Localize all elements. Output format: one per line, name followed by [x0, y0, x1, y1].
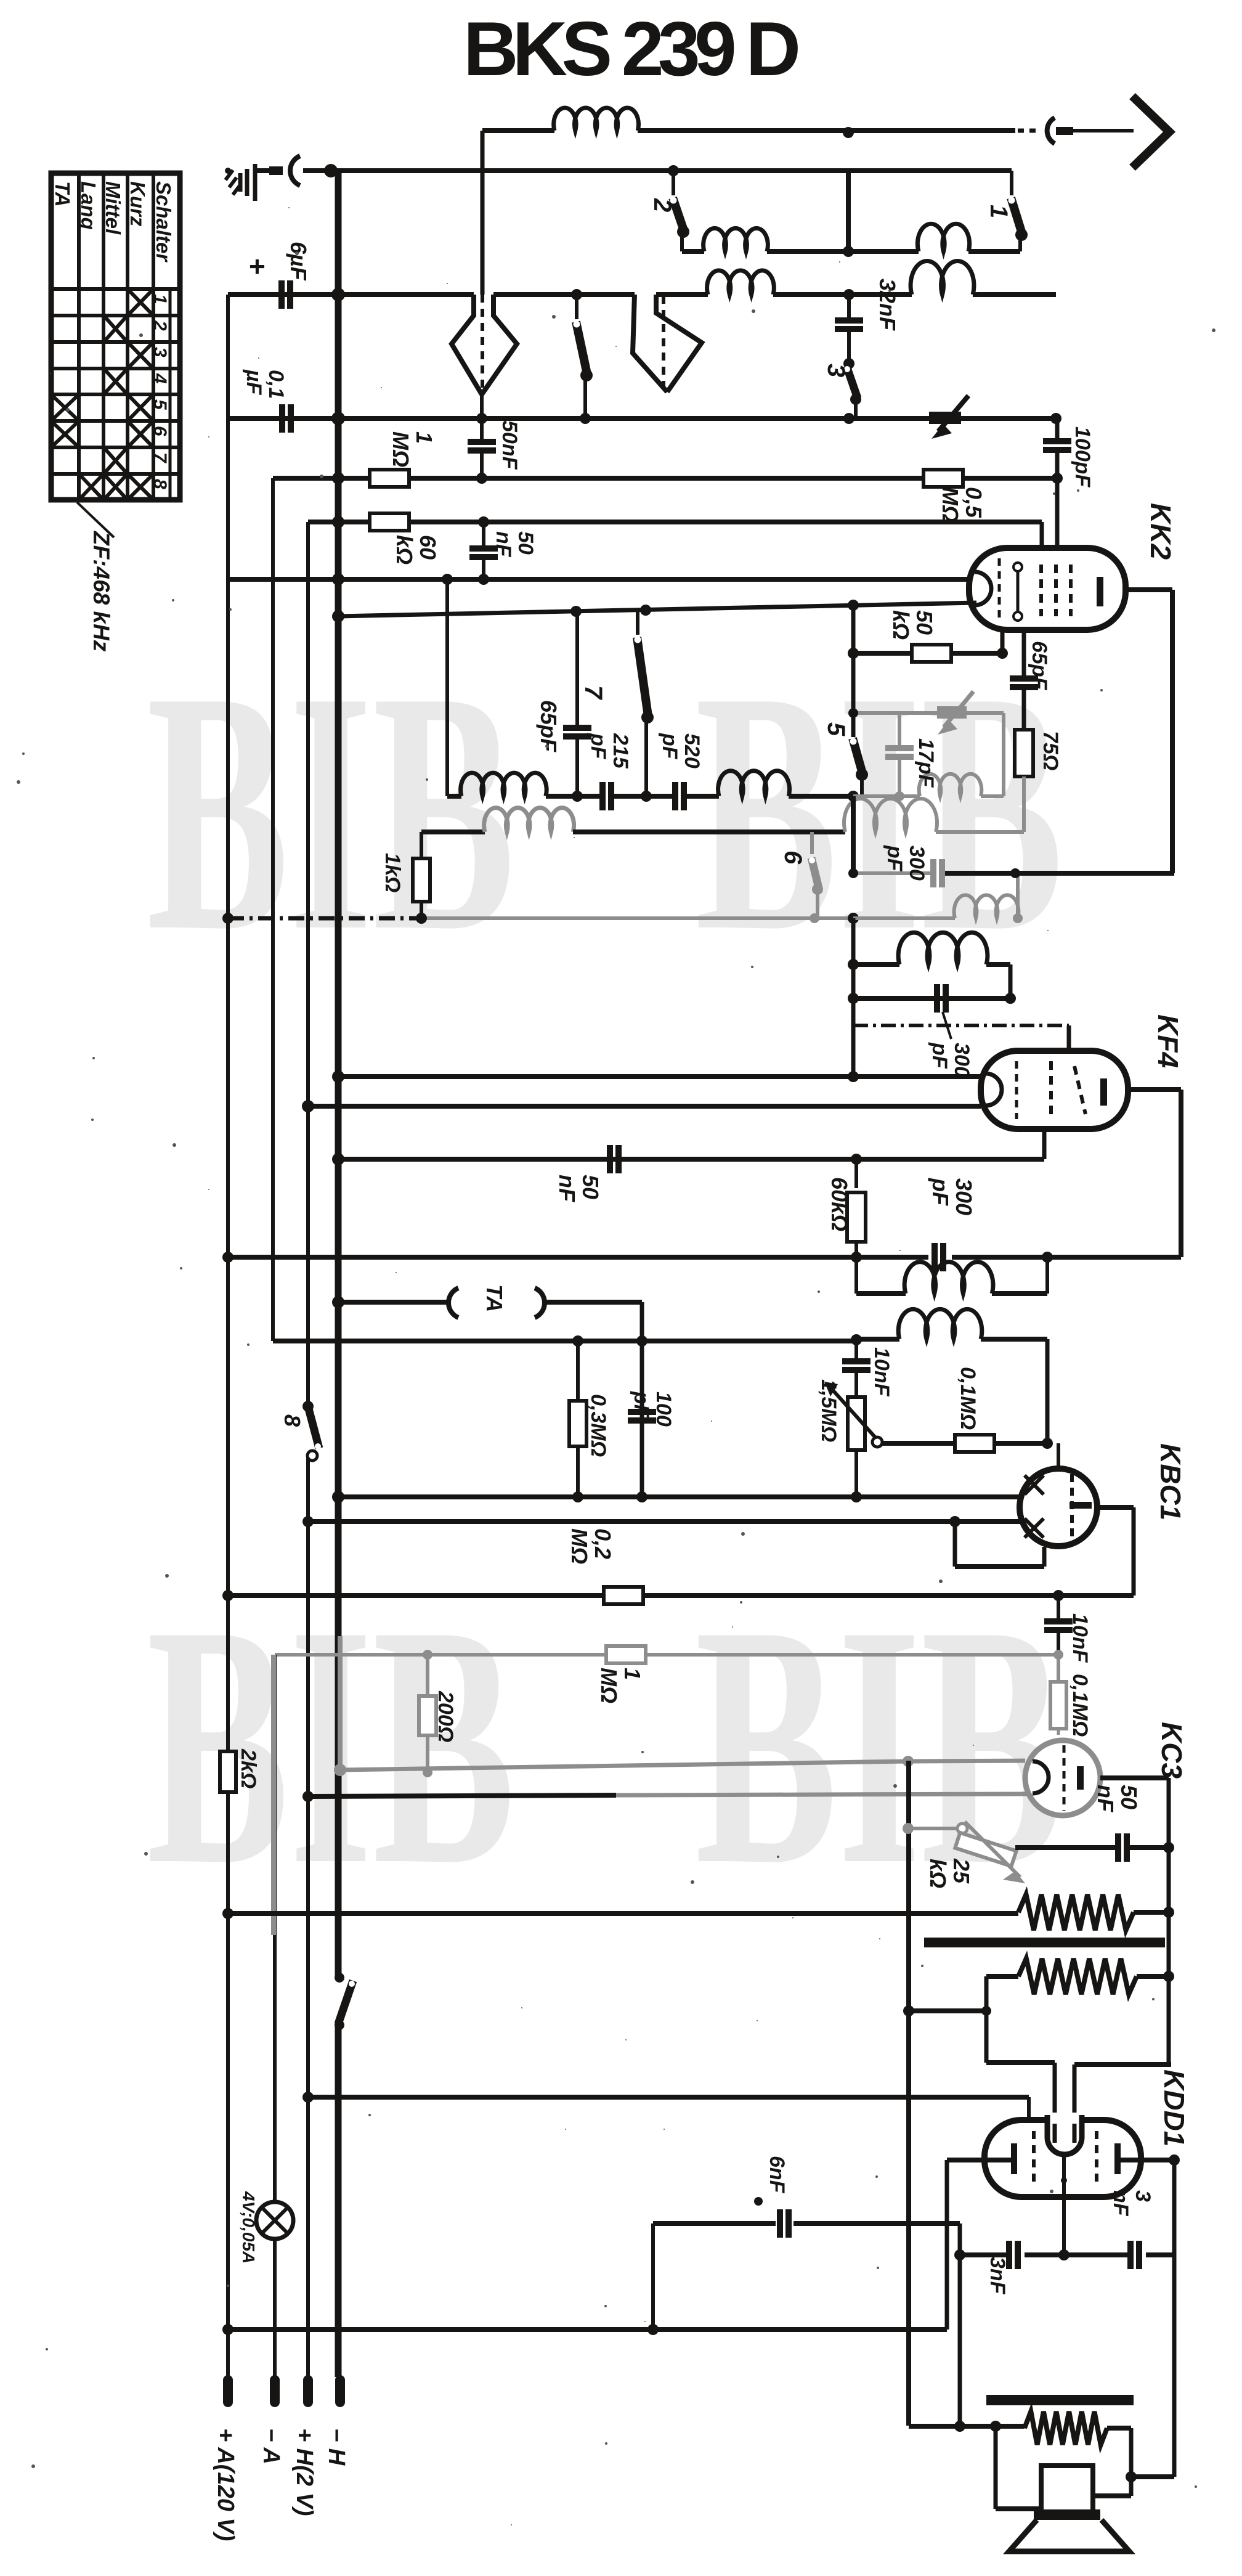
wire H 2429: [338, 1494, 1020, 1499]
wire H 2589: [228, 1593, 1134, 1598]
capacitor 50nF: [554, 1145, 622, 1202]
wire: [480, 394, 484, 418]
junction gray: [423, 1650, 432, 1660]
svg-text:0,3MΩ: 0,3MΩ: [586, 1394, 610, 1457]
wire H 3263: [909, 2008, 986, 2013]
wire: [583, 374, 587, 418]
svg-text:BIB: BIB: [147, 1554, 515, 1936]
switch 4: [574, 295, 593, 381]
svg-text:2: 2: [150, 320, 170, 331]
wire H 2912 to KC3 grid: [308, 1794, 1027, 1796]
wire KF4 line2: [308, 1104, 981, 1109]
resistor 0,3MOhm: [569, 1341, 610, 1497]
junction: [478, 516, 489, 528]
svg-text:7: 7: [580, 685, 607, 700]
resistor 1MOhm 2: [596, 1646, 646, 1703]
tube KK2: [969, 548, 1126, 630]
svg-text:17pF: 17pF: [914, 738, 938, 788]
capacitor gray: [885, 713, 914, 801]
svg-text:6nF: 6nF: [765, 2156, 789, 2194]
junction: [332, 1070, 344, 1083]
resistor 200Ohm: [419, 1655, 457, 1772]
wire H 3105: [228, 1911, 1018, 1916]
wire: [853, 996, 1010, 1001]
capacitor 3nF a: [986, 2241, 1021, 2295]
tube KC3: [1025, 1740, 1100, 1816]
potentiometer 1,5MOhm: [817, 1379, 877, 1497]
wire: [846, 171, 851, 251]
junction: [848, 913, 859, 924]
wire H6: [308, 522, 1042, 550]
svg-text:0,1µF: 0,1µF: [242, 369, 288, 399]
bus V4 (+H chassis bus): [335, 171, 342, 2377]
svg-text:8: 8: [280, 1414, 305, 1427]
junction: [222, 1252, 233, 1263]
svg-text:KF4: KF4: [1152, 1014, 1184, 1068]
junction: [848, 959, 859, 970]
wire gray osc top: [853, 711, 1004, 715]
svg-text:3: 3: [150, 347, 170, 357]
wire osc feed: [848, 868, 1174, 878]
svg-text:KBC1: KBC1: [1155, 1443, 1187, 1520]
resistor 0,1MOhm 2: [1050, 1655, 1092, 1742]
capacitor 215pF: [586, 733, 632, 810]
terminal -A: [258, 2380, 284, 2464]
junction: [848, 1071, 859, 1082]
wire: [1093, 2428, 1131, 2496]
rheostat 25kOhm: [925, 1822, 1025, 1888]
capacitor 65pF: [1010, 641, 1051, 691]
capacitor 65pF left: [536, 611, 591, 796]
wire TA left: [338, 1300, 447, 1305]
junction: [997, 648, 1008, 659]
wire gray coil: [853, 895, 1023, 923]
svg-text:0,1MΩ: 0,1MΩ: [956, 1367, 980, 1430]
junction: [954, 2249, 965, 2260]
resistor 50kOhm: [888, 610, 951, 662]
svg-text:3nF: 3nF: [986, 2257, 1009, 2295]
junction: [647, 2324, 659, 2335]
capacitor 520pF: [658, 733, 704, 810]
label KF4: [1152, 1014, 1184, 1068]
svg-text:50nF: 50nF: [1093, 1785, 1142, 1812]
svg-text:BIB: BIB: [147, 620, 515, 1002]
svg-text:50nF: 50nF: [492, 531, 537, 558]
title BKS 239 D: [463, 7, 802, 92]
svg-text:− A: − A: [258, 2428, 284, 2464]
capacitor 50nF antenna: [468, 418, 521, 484]
switch 1: [1009, 171, 1028, 241]
capacitor 10nF: [842, 1339, 893, 1397]
capacitor 6uF: [249, 242, 311, 309]
wire H 2176: [273, 1339, 856, 1343]
junction: [843, 127, 854, 138]
wire: [996, 2426, 1041, 2509]
svg-text:KC3: KC3: [1156, 1722, 1188, 1779]
svg-text:+ H(2 V): + H(2 V): [291, 2428, 317, 2516]
label 2: [649, 198, 676, 212]
tube KDD1: [984, 2113, 1141, 2197]
junction: [851, 1491, 862, 1502]
wire KBC1 top pin: [1057, 1443, 1060, 1469]
junction: [571, 289, 582, 300]
wire: [882, 1441, 954, 1446]
svg-text:KK2: KK2: [1145, 503, 1177, 560]
resistor 1MOhm: [370, 431, 437, 487]
svg-text:3: 3: [822, 364, 850, 377]
wire right anode: [1121, 2160, 1174, 2477]
junction: [949, 1516, 960, 1527]
svg-text:2: 2: [649, 198, 676, 212]
wire IF coil loop: [856, 1257, 1047, 1294]
junction: [636, 1335, 647, 1347]
junction: [332, 1153, 344, 1165]
svg-text:5: 5: [822, 722, 850, 736]
switch 6: [809, 832, 823, 918]
bus V3 (+H2V): [306, 522, 310, 2377]
junction: [843, 413, 854, 424]
label 6: [779, 850, 806, 865]
label KBC1: [1155, 1443, 1187, 1520]
winding zigzag 2: [1018, 1958, 1137, 1994]
capacitor 300pF: [934, 984, 949, 1013]
wire: [851, 796, 856, 873]
switch 5: [850, 738, 869, 797]
resistor 60kOhm: [370, 513, 440, 565]
wire: [1009, 964, 1013, 998]
junction: [848, 791, 859, 802]
wire: [1130, 1842, 1174, 1853]
svg-text:+: +: [249, 250, 266, 282]
junction: [222, 1590, 233, 1601]
svg-text:TA: TA: [482, 1284, 507, 1312]
svg-text:− H: − H: [323, 2428, 349, 2466]
switch 3: [844, 366, 861, 418]
svg-text:0,2MΩ: 0,2MΩ: [567, 1528, 615, 1564]
junction: [1052, 473, 1063, 484]
svg-text:5: 5: [150, 399, 170, 410]
wire row A gray: [853, 713, 1004, 796]
junction: [848, 993, 859, 1004]
wire: [1027, 2097, 1031, 2122]
bus V1 (+A): [226, 295, 230, 2377]
junction: [851, 1154, 862, 1165]
resistor 2kOhm: [220, 1748, 260, 1792]
resistor 60kOhm 2: [827, 1159, 866, 1257]
junction: [332, 1296, 344, 1308]
resistor 0,1MOhm: [955, 1367, 994, 1452]
wire: [986, 1976, 1055, 2143]
capacitor 50nF 4: [1093, 1785, 1142, 1862]
capacitor 100pF: [1043, 418, 1094, 548]
capacitor 32nF: [835, 279, 900, 361]
junction: [476, 413, 487, 424]
junction: [640, 605, 651, 616]
svg-text:4: 4: [150, 373, 170, 384]
label KC3: [1156, 1722, 1188, 1779]
wire: [1022, 630, 1026, 675]
wire gray H 2860: [340, 1761, 1025, 1770]
junction: [332, 516, 344, 528]
svg-text:60kΩ: 60kΩ: [827, 1177, 852, 1231]
switch table Schalter/Kurz/Mittel/Lang/TA: [51, 173, 180, 500]
svg-text:ZF:468 kHz: ZF:468 kHz: [89, 531, 114, 652]
wire TA right: [545, 1302, 642, 1497]
junction: [843, 246, 854, 257]
wire H 2469: [308, 1519, 1020, 1524]
switch 2: [670, 171, 690, 238]
svg-text:6: 6: [779, 850, 806, 865]
junction: [302, 2092, 314, 2103]
antenna jack: [256, 156, 300, 185]
svg-text:TA: TA: [51, 181, 74, 207]
svg-text:0,1MΩ: 0,1MΩ: [1068, 1674, 1092, 1737]
wire KF4 anode: [1128, 1090, 1181, 1257]
wire: [653, 2223, 960, 2329]
wire: [1015, 1845, 1115, 1850]
capacitor 0,1uF: [242, 369, 294, 433]
switch 7: [635, 610, 654, 723]
wire KC3 anode: [1100, 1778, 1169, 2064]
wire H 3780: [228, 2327, 947, 2332]
junction: [332, 1491, 344, 1503]
svg-text:32nF: 32nF: [875, 279, 900, 331]
capacitor 10nF 2: [1044, 1596, 1092, 1663]
wire gray V2 overlay: [271, 1655, 276, 1935]
wire: [853, 651, 1002, 656]
svg-text:200Ω: 200Ω: [434, 1690, 457, 1742]
core bar: [924, 1938, 1165, 1947]
wire V 1475: [906, 1761, 911, 2426]
wire coil row y408: [682, 224, 1020, 251]
junction: [848, 648, 859, 659]
junction: [302, 1516, 314, 1527]
svg-text:Kurz: Kurz: [126, 181, 149, 227]
junction gray: [1053, 1650, 1063, 1660]
wire: [851, 918, 856, 1077]
svg-text:1: 1: [150, 294, 170, 304]
junction: [848, 708, 858, 718]
core bar 2: [986, 2395, 1134, 2405]
tube KBC1: [1020, 1469, 1097, 1546]
wire: [644, 716, 648, 796]
junction: [1042, 1438, 1053, 1449]
junction: [848, 600, 859, 611]
junction: [1053, 1590, 1064, 1601]
junction: [332, 573, 344, 585]
wire H8: [338, 603, 976, 737]
junction: [331, 288, 345, 301]
junction: [572, 791, 583, 802]
junction: [843, 358, 854, 369]
junction: [572, 1491, 583, 1502]
junction: [324, 164, 338, 177]
bus V2a grid return: [271, 478, 275, 1341]
wire gray bus overlay: [338, 1636, 343, 1770]
wire: [680, 230, 684, 251]
wire KK2 cathode pin: [1000, 629, 1005, 653]
junction: [302, 1100, 314, 1112]
svg-text:1kΩ: 1kΩ: [381, 853, 404, 892]
svg-text:BIB: BIB: [695, 620, 1063, 1002]
wire row B: [421, 799, 1024, 832]
junction: [668, 165, 679, 176]
wire dashdot: [228, 916, 421, 921]
junction: [851, 1252, 862, 1263]
junction: [1042, 1252, 1053, 1263]
junction: [332, 472, 344, 484]
svg-text:1: 1: [985, 205, 1012, 218]
speaker: [1009, 2466, 1129, 2551]
switch 8: [302, 1401, 321, 1461]
wire KF4 grid: [338, 1074, 981, 1079]
TA jack: [448, 1284, 545, 1318]
wire row A: [447, 579, 853, 796]
switch mains: [335, 1973, 355, 2030]
wire KBC1 anode: [1097, 1507, 1134, 1596]
wire anode rail: [1126, 590, 1172, 873]
junction: [843, 289, 854, 300]
label 8: [280, 1414, 305, 1427]
wire: [1067, 1025, 1071, 1052]
wire coil row 2173: [856, 1309, 1047, 1443]
svg-text:50nF: 50nF: [554, 1175, 603, 1202]
plug right: [633, 295, 702, 392]
tube KF4: [981, 1051, 1128, 1129]
junction: [222, 1908, 233, 1919]
svg-text:BKS 239 D: BKS 239 D: [463, 7, 802, 92]
junction gray: [334, 1764, 346, 1776]
junction: [580, 413, 591, 424]
capacitor 6nF: [754, 2156, 792, 2238]
svg-text:0,5MΩ: 0,5MΩ: [938, 487, 986, 523]
wire left anode: [947, 2160, 1011, 2329]
label 7: [580, 685, 607, 700]
ground: [225, 164, 255, 201]
label 3: [822, 364, 850, 377]
junction: [990, 2421, 1001, 2432]
trimmer 17pF: [914, 691, 973, 788]
svg-text:10nF: 10nF: [870, 1347, 893, 1397]
junction: [332, 610, 344, 622]
wire filament tap: [1062, 2154, 1066, 2255]
junction: [331, 412, 345, 425]
plug left: [452, 280, 517, 394]
wire: [1126, 2471, 1174, 2482]
wire dashdot: [853, 1024, 1069, 1027]
svg-text:7: 7: [150, 452, 170, 463]
trimmer capacitor: [929, 396, 968, 439]
wire: [338, 1129, 1044, 1159]
note ZF 468 kHz with leader: [77, 502, 114, 652]
junction: [851, 1334, 862, 1345]
wire: [1134, 1907, 1174, 1918]
lamp 4V 0,05A: [239, 2191, 293, 2264]
antenna arrow: [1132, 96, 1169, 168]
junction: [903, 2005, 914, 2016]
wire gray: [421, 916, 853, 920]
label KDD1: [1158, 2069, 1190, 2146]
winding zigzag 3: [1025, 2411, 1107, 2445]
svg-text:1,5MΩ: 1,5MΩ: [817, 1379, 840, 1442]
wire: [995, 1441, 1047, 1446]
capacitor 100pF 2: [628, 1391, 675, 1427]
svg-text:50nF: 50nF: [498, 420, 521, 470]
junction: [641, 791, 652, 802]
junction: [416, 913, 427, 924]
junction: [570, 606, 582, 617]
label KK2: [1145, 503, 1177, 560]
capacitor 50nF: [469, 522, 537, 585]
junction: [222, 913, 233, 924]
wire gray: [1022, 776, 1026, 832]
wire gray 300pF loop: [853, 873, 1018, 918]
svg-text:4V;0,05A: 4V;0,05A: [239, 2191, 258, 2264]
terminal +A: [213, 2380, 238, 2541]
wire: [1074, 1971, 1174, 2143]
junction: [954, 2421, 965, 2432]
svg-text:+ A(120 V): + A(120 V): [213, 2428, 238, 2541]
wire H 3403: [308, 2095, 1029, 2100]
svg-text:10nF: 10nF: [1068, 1613, 1092, 1663]
resistor 0,2MOhm: [567, 1528, 643, 1604]
bus -A lower: [273, 1655, 277, 2377]
wire H4: [228, 416, 1056, 421]
junction: [810, 913, 819, 923]
svg-text:65pF: 65pF: [536, 700, 561, 752]
resistor 1kOhm: [381, 832, 430, 918]
wire V 1558: [958, 2223, 962, 2426]
wire: [1022, 690, 1026, 730]
wire cathode loop: [955, 1522, 1044, 1567]
svg-text:6µF: 6µF: [286, 242, 311, 281]
svg-text:Lang: Lang: [77, 181, 100, 230]
pot wiper: [872, 1437, 882, 1447]
svg-text:KDD1: KDD1: [1158, 2069, 1190, 2146]
wire gray H 2685: [275, 1653, 1058, 1657]
capacitor 300pF 3: [928, 1178, 976, 1271]
junction: [636, 1491, 647, 1502]
wire antenna line with coupling coil and plug: [482, 108, 1134, 295]
svg-text:Schalter: Schalter: [152, 181, 175, 263]
junction gray: [423, 1767, 432, 1777]
junction: [572, 1335, 583, 1347]
junction: [302, 1791, 314, 1802]
wire H3: [228, 261, 1056, 295]
capacitor 300pF gray: [883, 845, 945, 887]
winding zigzag 1: [1018, 1894, 1134, 1930]
capacitor 3nF b: [1109, 2190, 1155, 2269]
wire H2 earth bus: [303, 168, 1012, 173]
svg-text:6: 6: [150, 426, 170, 436]
label 300pF: [928, 1012, 973, 1078]
junction: [1005, 993, 1016, 1004]
junction: [442, 574, 453, 585]
label 1: [985, 205, 1012, 218]
terminal +H: [291, 2380, 317, 2516]
wire H5: [273, 476, 1057, 481]
junction: [222, 2324, 233, 2335]
wire: [1018, 234, 1022, 251]
wire H 3659: [960, 2252, 1174, 2257]
junction gray: [903, 1756, 914, 1767]
svg-text:100pF: 100pF: [1071, 426, 1094, 487]
resistor 0,5MOhm: [923, 470, 986, 523]
svg-text:8: 8: [150, 479, 170, 489]
junction: [1050, 413, 1061, 424]
wire H7: [228, 577, 970, 582]
junction: [1058, 2249, 1069, 2260]
